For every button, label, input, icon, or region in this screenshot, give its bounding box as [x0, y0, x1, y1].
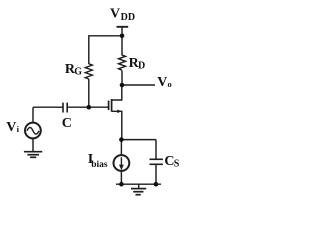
AC source V_i circle: [25, 123, 41, 139]
junction dot drain/V_o: [120, 83, 125, 88]
wire drain lead: [112, 85, 122, 100]
wire source lead: [112, 111, 122, 139]
svg-text:S: S: [174, 159, 180, 170]
wire gate segment: [67, 106, 108, 108]
svg-text:DD: DD: [121, 12, 135, 23]
junction dot gate/R_G: [87, 105, 92, 110]
current source I_bias arrow: [120, 157, 122, 166]
resistor R_G: [85, 64, 92, 79]
wire V_i source bottom lead: [32, 138, 34, 151]
wire R_D bottom lead: [121, 71, 123, 86]
transistor Q1 channel bar: [111, 99, 113, 112]
wire R_G top lead: [88, 35, 90, 64]
svg-text:bias: bias: [91, 160, 108, 170]
svg-text:G: G: [74, 67, 82, 78]
svg-text:i: i: [17, 124, 20, 134]
ground (main): [131, 189, 146, 195]
wire V_i source top lead: [32, 107, 34, 123]
junction dot top: [120, 34, 125, 39]
wire input left segment: [33, 106, 63, 108]
svg-text:D: D: [138, 61, 145, 72]
svg-text:V: V: [6, 120, 16, 135]
capacitor C plates: [62, 103, 64, 113]
wire R_G bottom lead: [88, 79, 90, 107]
current source I_bias circle: [114, 155, 130, 171]
AC source V_i sine wave: [27, 128, 39, 135]
svg-text:V: V: [110, 6, 120, 21]
wire C_S top lead: [155, 140, 157, 159]
resistor R_D: [119, 55, 126, 70]
wire R_D top lead: [121, 36, 123, 56]
svg-text:C: C: [62, 116, 72, 131]
wire bottom rail: [116, 183, 161, 185]
junction dot bottom right: [154, 182, 159, 187]
junction dot source node: [119, 137, 124, 142]
wire V_DD stub: [121, 27, 123, 36]
wire C_S bottom lead: [155, 164, 157, 184]
wire top rail to R_G: [89, 35, 122, 37]
wire I_bias top lead: [120, 140, 122, 156]
junction dot bottom left: [119, 182, 124, 187]
wire ground stub: [138, 184, 140, 188]
svg-text:o: o: [168, 79, 172, 89]
wire output to V_o: [122, 84, 155, 86]
capacitor C_S plates: [150, 158, 163, 160]
wire I_bias bottom lead: [120, 171, 122, 184]
transistor Q1 gate bar: [108, 101, 110, 111]
ground (V_i): [24, 152, 42, 158]
transistor Q1 source arrowhead: [117, 110, 121, 114]
wire source node rail: [121, 139, 156, 141]
svg-text:V: V: [157, 75, 167, 90]
supply V_DD terminal bar: [117, 26, 129, 28]
